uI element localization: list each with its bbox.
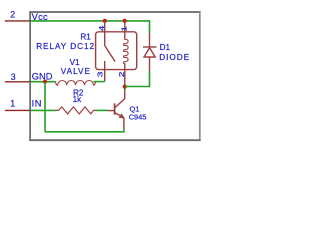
transistor Q1 base lead [108,110,115,112]
svg-text:RELAY DC12: RELAY DC12 [36,42,95,51]
transistor Q1 emitter diagonal [115,113,123,117]
svg-text:2: 2 [10,10,15,20]
svg-text:1k: 1k [73,95,83,104]
relay switch fixed contact / pin 3 stem [104,61,106,82]
diode D1 triangle [144,48,155,57]
port 1 (IN) pin line [5,109,30,111]
junction dot collector [123,85,127,89]
transistor Q1 base bar [114,103,116,114]
wire Vcc top rail [30,21,149,33]
junction dot GND [43,80,47,84]
valve V1 coil [56,80,96,85]
svg-text:IN: IN [32,99,42,109]
wire bottom rail [45,129,124,132]
relay coil pin 1 stem [124,21,126,40]
transistor Q1 collector riser [124,91,126,99]
diode D1 bottom lead [149,57,151,71]
frame border bottom [29,139,200,141]
wire valve to relay pin3 [94,81,105,83]
svg-text:1: 1 [10,99,15,109]
frame border top [29,11,200,13]
relay switch arm [105,46,115,62]
svg-text:V1: V1 [70,58,80,67]
resistor R2 zigzag [56,107,96,114]
svg-text:DIODE: DIODE [159,53,190,62]
wire GND to valve [30,81,55,83]
svg-text:D1: D1 [160,43,171,52]
svg-text:VALVE: VALVE [61,67,91,76]
transistor Q1 collector diagonal [115,99,124,108]
wire IN to R2 [30,109,55,111]
port 2 (Vcc) pin line [5,20,30,22]
svg-text:3: 3 [11,72,16,82]
svg-text:1: 1 [119,26,128,31]
transistor Q1 emitter arrowhead [119,114,124,118]
relay coil loops [123,39,128,63]
relay coil pin 2 stem [124,64,126,84]
wire collector to diode [125,71,150,87]
svg-text:2: 2 [117,72,126,78]
diode D1 top lead [149,33,151,47]
diode D1 cathode bar [143,46,157,48]
svg-text:C945: C945 [129,112,147,121]
svg-text:4: 4 [97,26,106,32]
frame border right [199,12,201,140]
wire collector node [124,84,126,91]
relay R1 box [96,32,137,70]
svg-text:GND: GND [32,71,53,81]
port 3 (GND) pin line [5,81,30,83]
wire R2 to Q1 base [96,109,109,111]
relay pin 4 stem [104,21,106,46]
junction dot relay pin4 [103,19,107,23]
frame border left [29,12,31,140]
transistor Q1 emitter riser [123,118,125,129]
svg-text:3: 3 [95,72,104,78]
svg-text:R1: R1 [80,33,91,42]
wire GND down [44,82,46,132]
junction dot relay pin1 [123,19,127,23]
